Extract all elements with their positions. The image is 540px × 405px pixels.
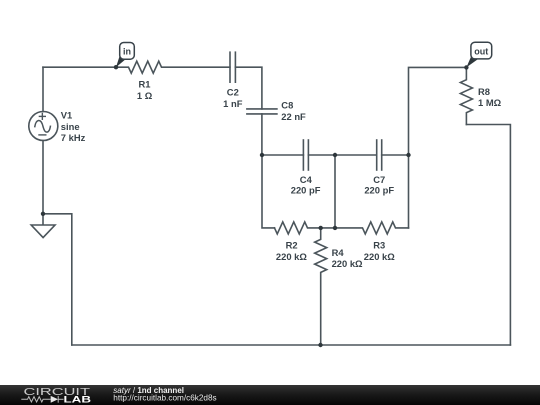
wire ground node to left rail corner down to bottom rail xyxy=(43,214,72,345)
wire V1 top lead xyxy=(42,67,44,111)
wire C4 to C7 through node B xyxy=(308,154,376,156)
resistor R1 xyxy=(116,61,230,73)
node dot in xyxy=(114,65,118,69)
CircuitLab logo schematic line with resistor and diode xyxy=(21,396,63,403)
node dot out xyxy=(464,65,468,69)
svg-text:LAB: LAB xyxy=(64,395,92,405)
capacitor C4 xyxy=(303,140,308,170)
node dot R2/R4 junction xyxy=(319,226,323,230)
flag in xyxy=(116,43,134,68)
wire bottom rail xyxy=(72,344,511,346)
resistor R3 xyxy=(335,222,409,234)
flag out xyxy=(466,42,491,67)
node dot A (C8 junction) xyxy=(260,153,264,157)
wire C8 to node A xyxy=(261,114,263,155)
capacitor C2 xyxy=(230,52,235,82)
wire C2 to corner and down to C8 xyxy=(235,67,262,109)
wire top rail left segment (node A to C4) xyxy=(262,154,303,156)
capacitor C7 xyxy=(377,140,382,170)
resistor R2 xyxy=(275,222,321,234)
footer bar xyxy=(0,385,540,405)
voltage source V1 xyxy=(29,112,58,141)
wire middle branch from node B down xyxy=(334,155,336,228)
node dot R4 bottom junction xyxy=(318,343,322,347)
wire V1 bottom lead to ground node xyxy=(42,141,44,214)
node dot ground junction xyxy=(41,212,45,216)
wire left branch down from node A xyxy=(262,155,275,228)
wire top-left horizontal from V1 to node in xyxy=(43,66,116,68)
capacitor C8 xyxy=(247,109,277,114)
wire R8 bottom elbow to right rail xyxy=(466,125,510,346)
resistor R4 xyxy=(315,228,327,345)
node dot middle branch junction xyxy=(333,226,337,230)
resistor R8 xyxy=(460,67,472,124)
wire C7 to node C xyxy=(382,154,409,156)
ground xyxy=(31,214,55,238)
CircuitLab logo diode triangle xyxy=(51,396,58,403)
svg-text:http://circuitlab.com/c6k2d8s: http://circuitlab.com/c6k2d8s xyxy=(113,394,216,403)
node dot C (C7/out junction) xyxy=(406,153,410,157)
wire junction R2/R4 to node B branch xyxy=(321,227,335,229)
wire right branch up from R3 to node C and corner to out xyxy=(409,67,467,228)
node dot B (C4/C7 junction) xyxy=(333,153,337,157)
